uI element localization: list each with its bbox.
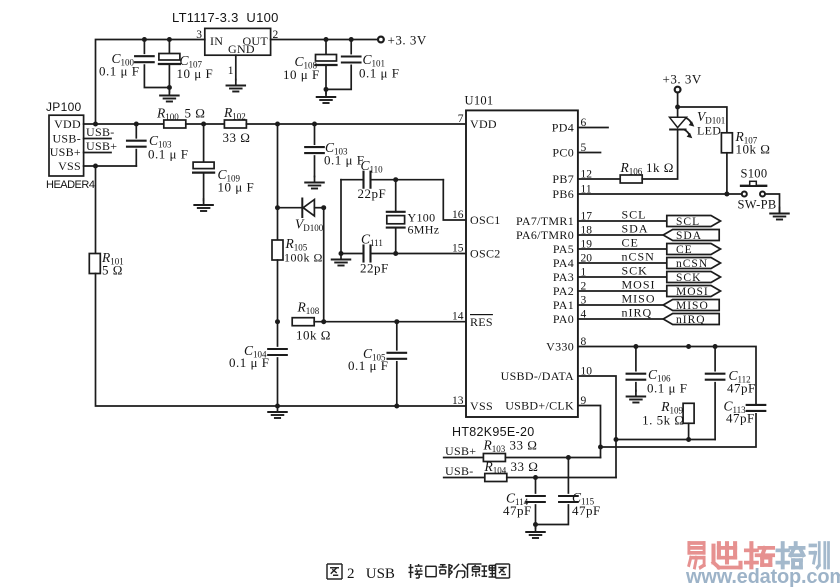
svg-text:47pF: 47pF — [727, 381, 756, 396]
svg-text:USB+: USB+ — [50, 145, 81, 159]
svg-text:47pF: 47pF — [572, 503, 601, 518]
capacitor C109 (electrolytic) — [203, 124, 205, 162]
ground C106 — [627, 391, 646, 403]
svg-text:+3. 3V: +3. 3V — [663, 72, 702, 87]
IC U101 body — [466, 110, 578, 417]
junction crystal bottom / OSC2 — [393, 251, 398, 256]
svg-text:VDD: VDD — [54, 117, 81, 131]
wire V330 rail — [578, 347, 756, 405]
wire rail to VD100 and R105 — [277, 124, 279, 240]
wire USBD+/CLK riser — [578, 406, 601, 458]
svg-text:10 μ F: 10 μ F — [218, 180, 255, 195]
svg-text:22pF: 22pF — [360, 261, 389, 276]
svg-text:PA6/TMR0: PA6/TMR0 — [516, 228, 574, 242]
svg-text:VDD: VDD — [470, 117, 497, 131]
wire C110-C111 left leg — [340, 180, 342, 254]
junction VD100 cathode corner — [321, 205, 326, 210]
svg-text:PA1: PA1 — [553, 298, 574, 312]
flag SDA (left-pointing) — [663, 230, 719, 241]
svg-text:U101: U101 — [465, 94, 494, 108]
svg-text:10k Ω: 10k Ω — [296, 328, 331, 343]
junction C100/C107 bottom — [167, 85, 172, 90]
svg-text:1k Ω: 1k Ω — [646, 160, 674, 175]
wire R103 to riser — [505, 457, 600, 459]
capacitor C105 — [396, 322, 398, 350]
junction C105 bottom — [394, 404, 399, 409]
svg-text:0.1 μ F: 0.1 μ F — [148, 147, 188, 162]
resistor R109 — [683, 403, 694, 423]
capacitor C107 (electrolytic) — [168, 40, 170, 54]
svg-text:OSC2: OSC2 — [470, 247, 501, 261]
capacitor C104 — [277, 322, 279, 346]
svg-text:USBD+/CLK: USBD+/CLK — [505, 399, 574, 413]
junction R108 right / VD100 branch — [321, 319, 326, 324]
svg-text:nCSN: nCSN — [676, 258, 708, 270]
wire VD100 cathode to R108 right — [323, 208, 325, 322]
ground C103-2 — [305, 177, 324, 189]
svg-text:7: 7 — [458, 113, 464, 125]
wire regulator input rail — [96, 40, 205, 125]
svg-text:33 Ω: 33 Ω — [511, 459, 539, 474]
flag SCL (right-pointing) — [667, 216, 721, 227]
wire switch to ground — [765, 194, 779, 214]
svg-text:nIRQ: nIRQ — [622, 306, 653, 320]
junction C115 top — [566, 455, 571, 460]
svg-text:PB6: PB6 — [552, 187, 574, 201]
resistor R106 — [620, 175, 642, 183]
capacitor C108 (electrolytic) — [325, 40, 327, 55]
svg-text:16: 16 — [452, 209, 464, 221]
svg-text:22pF: 22pF — [358, 186, 387, 201]
svg-text:LED: LED — [697, 124, 721, 138]
capacitor C106 — [635, 347, 637, 371]
ground bottom rail — [268, 406, 287, 418]
svg-text:V330: V330 — [546, 340, 574, 354]
wire PA2 to flag MOSI — [578, 290, 667, 292]
svg-text:+3. 3V: +3. 3V — [388, 33, 427, 48]
wire PB6 to switch S100 — [578, 193, 741, 195]
connector JP100 body (HEADER4) — [49, 115, 84, 176]
svg-text:1: 1 — [228, 65, 234, 77]
junction C108/C101 bottom — [324, 87, 329, 92]
svg-text:OSC1: OSC1 — [470, 213, 501, 227]
ground crystal leg — [332, 254, 351, 266]
svg-text:47pF: 47pF — [503, 503, 532, 518]
junction C106 top — [633, 344, 638, 349]
svg-text:100k Ω: 100k Ω — [284, 251, 323, 265]
svg-text:USB+: USB+ — [445, 444, 476, 458]
svg-text:USB-: USB- — [86, 125, 115, 139]
watermark logo text (red + blue) — [689, 543, 704, 568]
svg-text:47pF: 47pF — [726, 411, 755, 426]
svg-text:10 μ F: 10 μ F — [283, 67, 320, 82]
svg-text:0.1 μ F: 0.1 μ F — [99, 64, 139, 79]
svg-text:S100: S100 — [741, 167, 768, 181]
wire +3.3V down to LED — [677, 93, 679, 118]
capacitor C100 — [143, 40, 145, 54]
wire regulator output to +3.3V — [271, 39, 378, 41]
svg-text:14: 14 — [452, 311, 464, 323]
wire PA5 to flag CE — [578, 248, 667, 250]
capacitor C111 — [341, 253, 364, 255]
svg-text:VSS: VSS — [58, 159, 81, 173]
junction C108 top — [324, 37, 329, 42]
caption: figure 2 USB interface schematic — [327, 564, 510, 582]
resistor R103 — [483, 454, 505, 462]
net stub USB+ (JP100) — [84, 152, 111, 154]
flag CE (right-pointing) — [667, 244, 721, 255]
svg-text:33 Ω: 33 Ω — [510, 438, 538, 453]
wire D- bottom line — [616, 439, 715, 441]
svg-text:MISO: MISO — [676, 300, 709, 312]
junction C103 top — [134, 122, 139, 127]
capacitor C113 — [747, 405, 766, 411]
svg-text:33 Ω: 33 Ω — [223, 130, 251, 145]
resistor R100 — [164, 120, 186, 128]
svg-text:SDA: SDA — [676, 230, 702, 242]
junction D- bottom line — [614, 437, 619, 442]
wire PB7 to R106 — [578, 178, 620, 180]
svg-text:nCSN: nCSN — [622, 250, 655, 264]
junction C114 top — [533, 475, 538, 480]
terminal +3.3V (regulator output) — [378, 37, 384, 43]
wire VSS bottom rail — [96, 274, 466, 407]
regulator U100 body — [205, 28, 271, 55]
flag nIRQ (left-pointing) — [663, 314, 719, 325]
svg-text:JP100: JP100 — [46, 100, 82, 114]
svg-text:PA7/TMR1: PA7/TMR1 — [516, 214, 574, 228]
capacitor C103 (decoupling at U101) — [314, 124, 316, 144]
svg-text:USB-: USB- — [52, 131, 81, 145]
wire USBD-/DATA riser — [578, 376, 616, 478]
resistor R108 — [292, 318, 314, 326]
svg-text:IN: IN — [210, 34, 223, 48]
resistor R101 — [89, 254, 100, 274]
svg-text:RES: RES — [470, 315, 493, 329]
junction C105 top — [394, 319, 399, 324]
svg-text:CE: CE — [676, 244, 693, 256]
svg-text:www.edatop.com: www.edatop.com — [685, 566, 840, 588]
wire R106 to LED cathode — [642, 130, 677, 180]
junction C101 top — [349, 37, 354, 42]
flag nCSN (right-pointing) — [667, 258, 721, 269]
junction VD100 anode-side — [275, 205, 280, 210]
wire PA0 to flag nIRQ — [578, 318, 663, 320]
wire regulator GND pin — [235, 55, 237, 79]
svg-text:6MHz: 6MHz — [408, 223, 440, 237]
svg-text:0.1 μ F: 0.1 μ F — [229, 355, 269, 370]
wire VDD pin to R100 — [84, 123, 164, 125]
capacitor C112 — [714, 347, 716, 371]
svg-text:PA4: PA4 — [553, 256, 574, 270]
wire R100 to R102 — [186, 123, 225, 125]
diode VD100 — [278, 199, 324, 218]
junction D+ bottom line — [598, 445, 603, 450]
junction C104 bottom / ground — [275, 404, 280, 409]
junction VSS riser — [93, 164, 98, 169]
svg-text:0.1 μ F: 0.1 μ F — [348, 358, 388, 373]
flag SCK (right-pointing) — [667, 272, 721, 283]
svg-text:5 Ω: 5 Ω — [102, 263, 123, 278]
flag MISO (left-pointing) — [663, 300, 719, 311]
wire branch to R107 — [678, 107, 727, 133]
junction C111 left / ground — [339, 251, 344, 256]
LED VD101 — [670, 117, 695, 138]
svg-text:10 μ F: 10 μ F — [177, 66, 214, 81]
resistor R104 — [485, 474, 507, 482]
svg-text:PD4: PD4 — [552, 121, 574, 135]
junction R109 top — [686, 344, 691, 349]
resistor R105 — [272, 240, 283, 260]
net stub USB- (JP100) — [84, 138, 111, 140]
junction VD100/R105 branch — [275, 122, 280, 127]
capacitor C103 (at JP100) — [135, 124, 137, 138]
svg-text:0.1 μ F: 0.1 μ F — [647, 381, 687, 396]
svg-text:OUT: OUT — [242, 34, 268, 48]
svg-text:VSS: VSS — [470, 399, 493, 413]
junction R108 left / C104 — [275, 319, 280, 324]
svg-text:0.1 μ F: 0.1 μ F — [324, 153, 364, 168]
wire PA4 to flag nCSN — [578, 262, 667, 264]
svg-text:PB7: PB7 — [552, 172, 574, 186]
wire R102 to U101 VDD — [246, 123, 466, 125]
wire C113 bottom to USB+ riser — [601, 414, 757, 447]
svg-text:5 Ω: 5 Ω — [185, 106, 206, 121]
crystal Y100 — [395, 180, 397, 212]
svg-text:SCK: SCK — [676, 272, 701, 284]
ground switch S100 — [770, 208, 789, 220]
ground C108/C101 — [317, 91, 336, 103]
wire VSS pin stub — [84, 165, 137, 167]
wire R107 to PB6 line — [726, 153, 728, 194]
svg-text:PA5: PA5 — [553, 242, 574, 256]
svg-text:PA2: PA2 — [553, 284, 574, 298]
svg-text:USB-: USB- — [445, 464, 474, 478]
svg-text:10k Ω: 10k Ω — [736, 142, 771, 157]
capacitor C101 — [350, 40, 352, 54]
svg-text:PC0: PC0 — [552, 146, 574, 160]
svg-text:SDA: SDA — [622, 222, 649, 236]
wire to U101 OSC1 — [443, 180, 466, 220]
junction R109 bottom / D- line — [686, 437, 691, 442]
svg-text:SW-PB: SW-PB — [738, 198, 777, 212]
svg-text:MISO: MISO — [622, 292, 656, 306]
capacitor C114 — [535, 478, 537, 494]
svg-text:15: 15 — [452, 243, 464, 255]
svg-text:SCK: SCK — [622, 264, 648, 278]
junction C114/C115 bottom — [533, 522, 538, 527]
svg-text:PA0: PA0 — [553, 312, 574, 326]
svg-text:CE: CE — [622, 236, 639, 250]
svg-text:MOSI: MOSI — [676, 286, 709, 298]
ground C114/C115 — [526, 526, 545, 538]
svg-text:SCL: SCL — [676, 216, 700, 228]
svg-text:LT1117-3.3 U100: LT1117-3.3 U100 — [172, 10, 279, 25]
junction C107 top — [167, 37, 172, 42]
capacitor C115 — [567, 458, 569, 494]
svg-text:2 USB: 2 USB — [347, 566, 395, 582]
resistor R102 — [224, 120, 246, 128]
ground C109 — [194, 199, 213, 211]
svg-text:USB+: USB+ — [86, 139, 117, 153]
wire R105 to R108 node — [277, 260, 279, 322]
wire VSS riser upper — [95, 166, 97, 254]
net stub USB- (bottom) — [444, 477, 485, 479]
junction C112 top — [713, 344, 718, 349]
wire R108 to U101 RES — [314, 321, 466, 323]
junction LED / R107 branch — [675, 105, 680, 110]
junction C100 top — [142, 37, 147, 42]
svg-text:nIRQ: nIRQ — [676, 314, 706, 326]
flag MOSI (right-pointing) — [667, 286, 721, 297]
wire PA7/TMR1 to flag SCL — [578, 220, 667, 222]
junction R107 bottom / PB6 — [724, 192, 729, 197]
ground regulator U100 pin 1 — [227, 80, 246, 92]
wire PA3 to flag SCK — [578, 276, 667, 278]
svg-text:1. 5k Ω: 1. 5k Ω — [642, 413, 684, 428]
junction C109 top — [201, 122, 206, 127]
wire R109 bottom — [688, 423, 690, 439]
svg-text:HEADER4: HEADER4 — [46, 179, 95, 191]
junction C103-2 top — [312, 122, 317, 127]
svg-text:PA3: PA3 — [553, 270, 574, 284]
wire R104 to riser — [507, 477, 616, 479]
capacitor C110 — [341, 179, 364, 181]
resistor R107 — [721, 133, 732, 153]
junction C110 / crystal top — [393, 177, 398, 182]
wire PA1 to flag MISO — [578, 304, 663, 306]
junction VDD / input-rail riser — [93, 122, 98, 127]
wire PA6/TMR0 to flag SDA — [578, 234, 663, 236]
ground C100/C107 — [160, 90, 179, 102]
svg-text:0.1 μ F: 0.1 μ F — [359, 66, 399, 81]
svg-text:13: 13 — [452, 395, 464, 407]
net stub USB+ (bottom) — [444, 457, 484, 459]
svg-text:USBD-/DATA: USBD-/DATA — [501, 369, 574, 383]
terminal +3.3V (LED supply) — [675, 87, 681, 93]
svg-text:MOSI: MOSI — [622, 278, 656, 292]
svg-text:SCL: SCL — [622, 208, 647, 222]
